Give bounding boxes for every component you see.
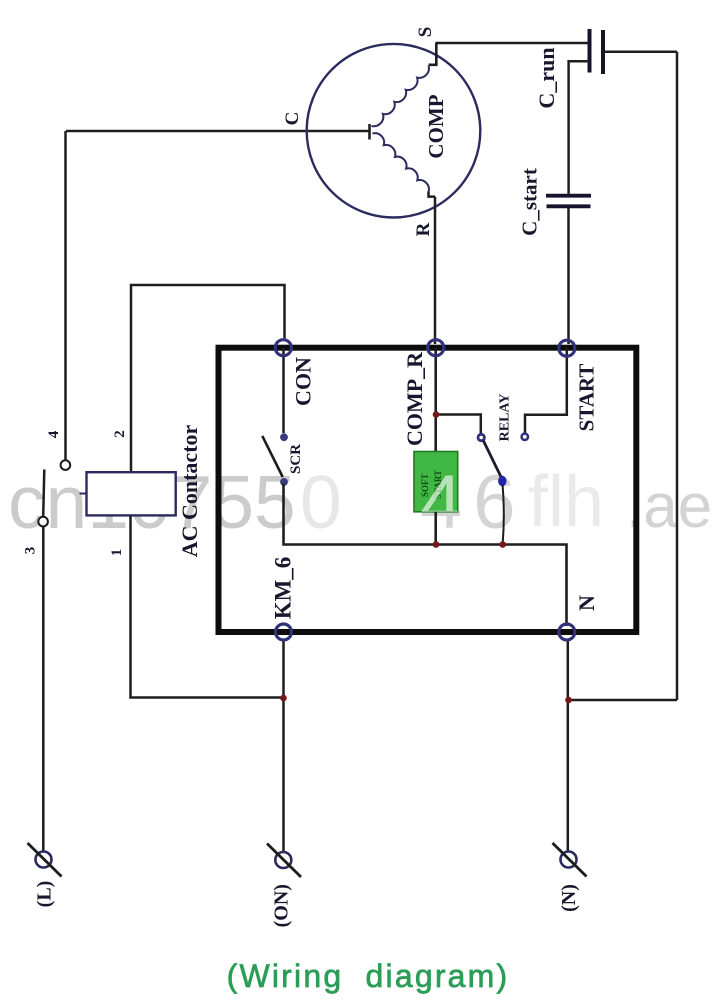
junction dot at COMP_R branch bbox=[433, 411, 440, 418]
wire C lead horizontal from left loop to motor center bbox=[66, 130, 370, 133]
SCR lower contact dot bbox=[280, 478, 288, 486]
wire from contactor pin 1 down and right to ON line bbox=[131, 515, 282, 697]
wire from contact 3 down to terminal L bbox=[42, 526, 45, 851]
svg-text:COMP_R: COMP_R bbox=[402, 351, 427, 446]
junction dot N line bbox=[565, 697, 572, 704]
wire from C_start down to node START bbox=[567, 208, 570, 344]
wire right rail vertical bbox=[676, 52, 679, 700]
SCR switch blade bbox=[262, 436, 282, 477]
capacitor C_run left plate bbox=[588, 29, 592, 73]
node N ring bbox=[559, 624, 575, 640]
wire from green starter bottom to bottom rail bbox=[434, 512, 437, 545]
wire branch to relay left contact bbox=[436, 415, 481, 434]
junction dot bottom rail left bbox=[433, 541, 440, 548]
terminal L slash bbox=[28, 843, 62, 877]
svg-text:START: START bbox=[575, 364, 599, 432]
svg-text:S: S bbox=[415, 27, 436, 38]
svg-text:2: 2 bbox=[112, 430, 128, 438]
node COMP_R ring bbox=[428, 340, 444, 356]
junction dot ON line bbox=[280, 695, 287, 702]
svg-text:C_start: C_start bbox=[518, 168, 542, 236]
svg-text:3: 3 bbox=[23, 547, 39, 555]
wire top rail from S to C_run bbox=[436, 42, 590, 45]
terminal N circle bbox=[561, 852, 577, 868]
soft start module (green) bbox=[414, 452, 458, 512]
watermark ghost over soft start module bbox=[420, 460, 527, 545]
wire S lead vertical bbox=[429, 43, 437, 65]
terminal ON slash bbox=[267, 844, 301, 878]
node KM_6 white underlay bbox=[274, 622, 293, 641]
svg-text:R: R bbox=[413, 222, 434, 236]
terminal L circle bbox=[36, 852, 52, 868]
svg-text:C: C bbox=[282, 112, 303, 126]
node COMP_R white underlay bbox=[426, 338, 445, 357]
relay armature blue blob bbox=[498, 476, 506, 486]
node CON white underlay bbox=[274, 338, 293, 357]
wire tap from C_run left plate down to C_start bbox=[569, 61, 590, 194]
node START ring bbox=[559, 340, 575, 356]
switch blade of L-line disconnect bbox=[43, 470, 44, 517]
svg-text:(N): (N) bbox=[558, 884, 580, 912]
svg-text:C_run: C_run bbox=[534, 47, 559, 108]
wire from node N down to terminal N bbox=[567, 640, 570, 852]
node CON ring bbox=[275, 340, 291, 356]
contact circle 3 bbox=[38, 517, 48, 527]
wire right rail horizontal joining N drop bbox=[569, 699, 678, 702]
wire from node KM_6 down to terminal ON bbox=[282, 640, 285, 854]
contact circle 4 bbox=[61, 460, 71, 470]
junction dot bottom rail relay bbox=[499, 541, 506, 548]
svg-text:(Wiring diagram): (Wiring diagram) bbox=[227, 958, 510, 994]
svg-text:AC Contactor: AC Contactor bbox=[177, 424, 202, 557]
svg-text:CON: CON bbox=[291, 357, 316, 406]
svg-text:0: 0 bbox=[300, 460, 342, 544]
wire from C_run right plate to right rail bbox=[603, 51, 677, 54]
svg-text:SCR: SCR bbox=[288, 444, 304, 474]
terminal ON circle bbox=[275, 852, 291, 868]
AC contactor coil rectangle KM bbox=[87, 472, 176, 515]
wire from node CON down to SCR contact bbox=[282, 348, 285, 433]
svg-text:1: 1 bbox=[109, 549, 125, 557]
wire from SCR down then right along box bottom to node N bbox=[284, 484, 567, 626]
wire loop from contactor pin 2 up and right to node CON bbox=[131, 285, 285, 473]
node START white underlay bbox=[557, 339, 576, 358]
node KM_6 ring bbox=[276, 624, 292, 640]
terminal N slash bbox=[553, 843, 587, 877]
motor C terminal bar bbox=[368, 124, 371, 140]
protection box thick border bbox=[219, 348, 637, 632]
wire from node START down then left to relay right contact bbox=[525, 348, 567, 434]
wire R lead from motor down to node COMP_R bbox=[429, 192, 436, 345]
svg-text:flh: flh bbox=[528, 462, 604, 542]
capacitor C_start bottom plate bbox=[547, 204, 591, 208]
capacitor C_start top plate bbox=[546, 194, 591, 198]
svg-text:COMP: COMP bbox=[424, 94, 448, 158]
wire from node COMP_R down into green starter bbox=[434, 348, 437, 452]
capacitor C_run right plate bbox=[601, 30, 605, 74]
svg-text:(L): (L) bbox=[34, 881, 56, 908]
svg-text:(ON): (ON) bbox=[271, 884, 293, 927]
svg-text:KM_6: KM_6 bbox=[271, 557, 296, 620]
node N white underlay bbox=[557, 622, 576, 641]
svg-text:N: N bbox=[574, 595, 599, 611]
contactor armature tick bbox=[80, 493, 87, 495]
wire left vertical drop from C lead to contact 4 bbox=[64, 131, 67, 461]
compressor motor circle COMP bbox=[307, 44, 481, 218]
relay blade bbox=[483, 441, 501, 478]
wire from relay armature down to bottom rail bbox=[503, 485, 504, 543]
relay left contact circle bbox=[478, 434, 484, 440]
relay right contact circle bbox=[522, 434, 528, 440]
motor winding to R bbox=[373, 133, 429, 192]
svg-text:RELAY: RELAY bbox=[498, 394, 513, 442]
motor winding to S bbox=[372, 66, 429, 127]
svg-text:4: 4 bbox=[46, 430, 62, 438]
SCR top contact dot bbox=[280, 433, 288, 441]
